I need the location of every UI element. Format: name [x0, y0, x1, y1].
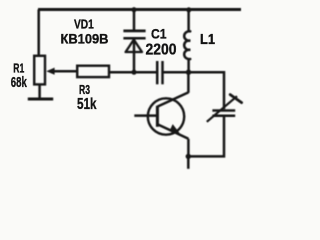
wire: tuning cap bottom down and left to node C	[188, 116, 224, 157]
wire: left vertical from rail corner down to R1	[37, 10, 40, 57]
wire: stub below node C	[187, 156, 190, 168]
node A: VD1 bottom junction	[131, 70, 136, 75]
capacitor C1	[157, 61, 162, 84]
wire: base lead	[134, 114, 157, 117]
svg-text:R1: R1	[13, 61, 24, 76]
wire: R1 bottom lead	[38, 84, 41, 98]
svg-text:2200: 2200	[146, 42, 177, 59]
svg-text:R3: R3	[79, 82, 90, 97]
node C: emitter junction	[186, 154, 191, 159]
node B: junction C1 / L1 / collector / tuning cap	[186, 70, 191, 75]
svg-text:C1: C1	[151, 27, 167, 42]
svg-text:68k: 68k	[11, 75, 28, 91]
transistor VT1	[134, 72, 188, 156]
wire: top supply rail	[38, 8, 241, 11]
wire: C1 to node B	[163, 71, 189, 74]
varicap VD1	[123, 10, 145, 73]
node: L1 top junction on rail	[186, 7, 191, 12]
collector lead	[157, 92, 188, 106]
wire: collector up to node B	[187, 72, 190, 93]
wire: node B to tuning capacitor top	[189, 72, 225, 109]
ground terminal bar under R1	[28, 98, 53, 101]
svg-text:L1: L1	[200, 32, 215, 48]
variable capacitor (tuning)	[207, 95, 242, 122]
wire: R3 to node A to C1 (main horizontal)	[109, 71, 157, 74]
resistor R1 (potentiometer body)	[34, 56, 45, 85]
svg-text:51k: 51k	[77, 96, 97, 113]
resistor R3	[77, 66, 109, 77]
node: VD1 top junction on rail	[131, 7, 136, 12]
wire: emitter down to node C	[187, 139, 190, 157]
R1 wiper arrow	[46, 68, 77, 75]
base bar	[156, 106, 159, 127]
svg-text:КВ109В: КВ109В	[61, 31, 109, 46]
emitter lead with arrow	[157, 124, 188, 139]
svg-text:VD1: VD1	[74, 18, 94, 32]
inductor L1	[184, 10, 190, 73]
transistor body circle	[148, 98, 184, 134]
